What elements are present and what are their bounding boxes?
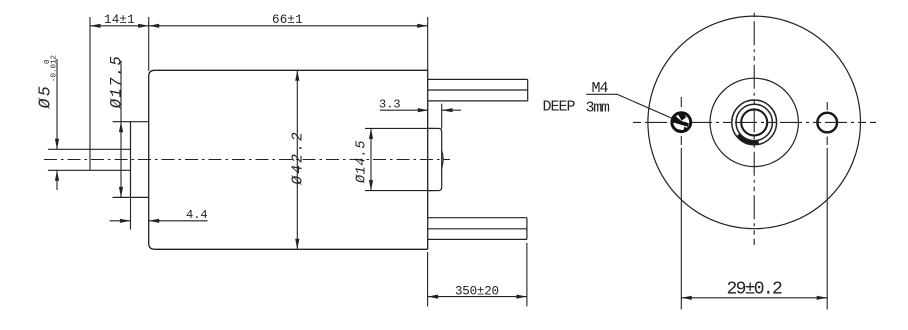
svg-text:Ø14.5: Ø14.5: [355, 140, 370, 184]
svg-text:4.4: 4.4: [186, 208, 208, 222]
svg-text:350±20: 350±20: [455, 285, 499, 299]
svg-text:-0.012: -0.012: [51, 55, 59, 82]
svg-text:Ø17.5: Ø17.5: [108, 55, 126, 110]
svg-text:3.3: 3.3: [379, 97, 401, 111]
svg-text:Ø5: Ø5: [36, 84, 55, 110]
svg-text:66±1: 66±1: [272, 13, 303, 27]
svg-text:Ø42.2: Ø42.2: [291, 130, 307, 186]
svg-text:DEEP: DEEP: [543, 98, 576, 115]
svg-text:14±1: 14±1: [104, 13, 135, 27]
svg-text:29±0.2: 29±0.2: [727, 280, 783, 300]
svg-text:3mm: 3mm: [586, 99, 610, 116]
svg-text:M4: M4: [592, 80, 609, 97]
